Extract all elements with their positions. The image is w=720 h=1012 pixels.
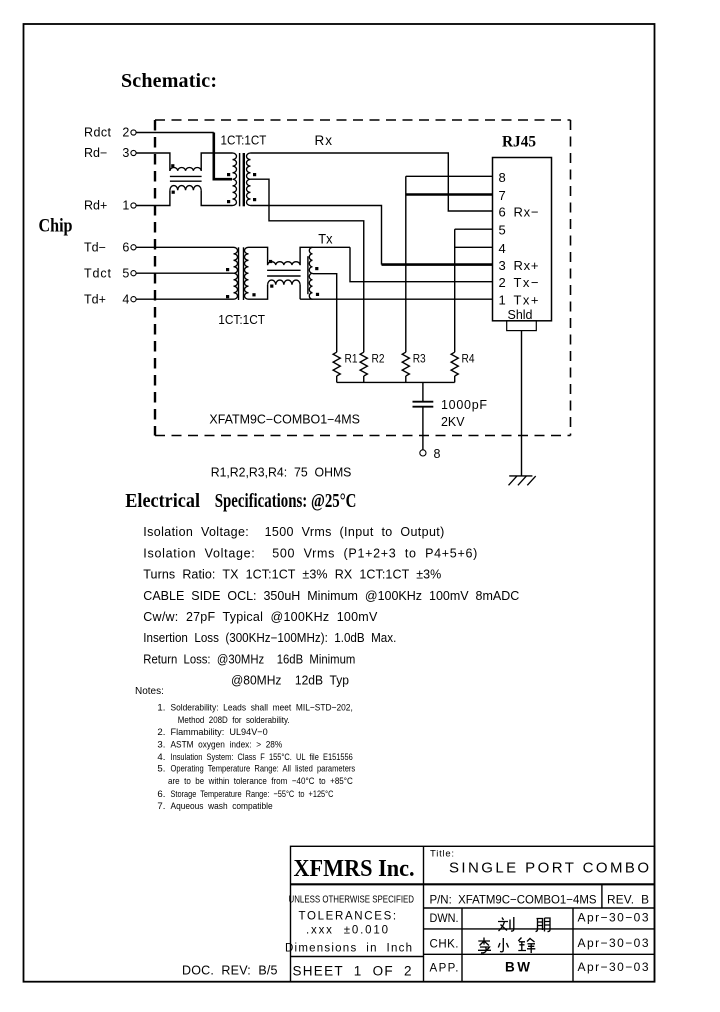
signature Liu Peng (DWN) <box>498 917 550 932</box>
svg-text:R2: R2 <box>372 354 385 366</box>
svg-text:CHK.: CHK. <box>430 939 459 951</box>
autotransformer L1 winding <box>309 247 312 299</box>
capacitor C1 top lead <box>422 382 424 401</box>
svg-text:Apr−30−03: Apr−30−03 <box>578 936 649 950</box>
wire Td+ pin4 to T2 primary bottom <box>136 298 233 300</box>
svg-text:P/N: XFATM9C−COMBO1−4MS: P/N: XFATM9C−COMBO1−4MS <box>430 893 597 907</box>
wire Tx top rail to RJ45 pin2 Tx- <box>350 247 493 281</box>
wire Rdct pin2 horizontal <box>136 132 214 134</box>
svg-text:2: 2 <box>122 126 129 140</box>
svg-text:7.: 7. <box>157 801 165 812</box>
svg-text:.xxx ±0.010: .xxx ±0.010 <box>306 925 388 937</box>
svg-text:R1: R1 <box>345 354 358 366</box>
node terminal circle 8 <box>420 450 426 456</box>
svg-text:1CT:1CT: 1CT:1CT <box>221 133 267 148</box>
svg-text:Apr−30−03: Apr−30−03 <box>578 911 649 925</box>
choke CM1 core lines <box>170 175 202 177</box>
wire RJ45 pin5 <box>455 228 493 230</box>
svg-text:Notes:: Notes: <box>135 686 164 697</box>
resistor R4 bottom lead <box>454 376 456 382</box>
transformer T1 core lines <box>239 153 241 206</box>
wire choke CM2 right to Tx top rail <box>300 247 350 265</box>
pin terminal circle 3 <box>131 150 136 155</box>
wire T1 secondary center tap to R2 <box>251 179 364 352</box>
wire Td- pin6 to T2 primary top <box>136 246 233 248</box>
svg-text:RJ45: RJ45 <box>502 134 536 151</box>
RJ45 connector body <box>493 158 552 321</box>
svg-text:Tdct: Tdct <box>84 266 112 280</box>
svg-text:Tx: Tx <box>318 232 332 247</box>
svg-text:Rx: Rx <box>315 133 333 148</box>
T1 polarity dots <box>227 173 230 176</box>
svg-text:Operating Temperature Range:: Operating Temperature Range: All listed … <box>171 764 356 775</box>
svg-text:Isolation Voltage: 500 Vr: Isolation Voltage: 500 Vrms (P1+2+3 to P… <box>143 546 477 560</box>
transformer T1 secondary winding <box>246 153 250 206</box>
autotransformer polarity dots <box>315 267 318 270</box>
wire net pins7+8 vertical to R3 <box>405 176 407 352</box>
wire Tdct pin5 to T2 center tap <box>136 272 233 274</box>
wire Tx bottom rail to RJ45 pin1 Tx+ <box>300 298 492 300</box>
svg-text:DWN.: DWN. <box>430 913 459 925</box>
svg-text:Schematic:: Schematic: <box>121 70 217 92</box>
svg-text:Chip: Chip <box>39 216 73 237</box>
capacitor C1 bottom lead <box>422 407 424 449</box>
choke CM2 bottom winding <box>268 280 301 285</box>
svg-text:7: 7 <box>499 188 506 203</box>
wire shield to ground <box>521 331 523 476</box>
svg-text:Insulation System: Class F: Insulation System: Class F 155°C. UL fil… <box>171 752 353 763</box>
resistor R3 bottom lead <box>405 376 407 382</box>
svg-text:XFATM9C−COMBO1−4MS: XFATM9C−COMBO1−4MS <box>209 413 360 427</box>
svg-text:3: 3 <box>122 146 129 160</box>
svg-text:BW: BW <box>505 960 530 975</box>
wire RJ45 pin8 <box>406 175 493 177</box>
transformer T2 (Tx) primary winding <box>234 247 238 299</box>
autotransformer L1 core line <box>307 256 309 294</box>
svg-text:Rd−: Rd− <box>84 146 107 160</box>
svg-text:1.: 1. <box>157 703 165 714</box>
resistor R1 bottom lead <box>336 376 338 382</box>
wire thick to RJ45 pin3 Rx+ <box>382 263 493 266</box>
svg-text:6: 6 <box>122 241 129 255</box>
svg-text:2: 2 <box>499 275 506 290</box>
ground symbol <box>509 476 536 485</box>
svg-text:Flammability: UL94V−0: Flammability: UL94V−0 <box>171 727 268 738</box>
transformer T1 (Rx) primary winding <box>233 153 237 206</box>
svg-text:2.: 2. <box>157 727 165 738</box>
wire Rdct thick vertical to T1 primary center tap <box>214 133 232 180</box>
svg-text:R1,R2,R3,R4: 75 OHMS: R1,R2,R3,R4: 75 OHMS <box>211 466 352 480</box>
svg-text:8: 8 <box>499 170 506 185</box>
transformer T2 secondary winding <box>244 247 248 299</box>
RJ45 shield tab <box>507 321 537 331</box>
wire choke CM2 right bottom <box>299 285 301 300</box>
wire Rd+ pin1 to choke CM1 <box>136 190 170 205</box>
svg-text:DOC. REV: B/5: DOC. REV: B/5 <box>182 964 278 978</box>
wire autotransformer tap to R1 <box>313 274 337 353</box>
svg-text:6: 6 <box>499 205 506 220</box>
svg-text:5: 5 <box>122 266 129 280</box>
capacitor C1 plates <box>413 402 434 407</box>
choke CM1 polarity dot top <box>171 164 174 167</box>
svg-text:Shld: Shld <box>508 307 533 322</box>
svg-text:Tx−: Tx− <box>514 275 539 290</box>
svg-text:Td+: Td+ <box>84 292 106 306</box>
wire choke CM1 to T1 primary top <box>201 153 232 171</box>
svg-text:Apr−30−03: Apr−30−03 <box>578 960 649 974</box>
resistor R2 <box>360 352 367 376</box>
choke CM1 bottom winding <box>170 186 201 191</box>
svg-text:@80MHz 12dB Typ: @80MHz 12dB Typ <box>231 674 349 688</box>
choke CM2 core lines <box>267 269 301 271</box>
wire T2 secondary top to choke CM2 <box>249 247 268 265</box>
svg-text:Return Loss: @30MHz 16dB: Return Loss: @30MHz 16dB Minimum <box>143 652 355 666</box>
svg-text:XFMRS Inc.: XFMRS Inc. <box>294 855 415 882</box>
wire thick RJ45 pin7 <box>406 193 493 196</box>
T2 polarity dots <box>226 268 229 271</box>
svg-text:4: 4 <box>122 292 129 306</box>
svg-text:4.: 4. <box>157 752 165 763</box>
svg-text:Rx+: Rx+ <box>514 258 539 273</box>
svg-text:8: 8 <box>434 447 441 461</box>
svg-text:6.: 6. <box>157 789 165 800</box>
svg-text:Cw/w: 27pF Typical @100KHz: Cw/w: 27pF Typical @100KHz 100mV <box>143 610 378 624</box>
svg-text:Rx−: Rx− <box>514 205 539 220</box>
svg-text:4: 4 <box>499 241 506 256</box>
common-mode choke CM1 (Rx) top winding <box>170 167 201 170</box>
svg-text:Solderability: Leads shall: Solderability: Leads shall meet MIL−STD−… <box>171 703 353 714</box>
svg-text:5.: 5. <box>157 764 165 775</box>
wire T2 secondary bottom to choke CM2 <box>249 285 268 300</box>
svg-text:Aqueous wash compatible: Aqueous wash compatible <box>171 801 273 812</box>
resistor R3 <box>402 352 409 376</box>
svg-text:Title:: Title: <box>430 849 454 860</box>
svg-text:Td−: Td− <box>84 241 106 255</box>
resistor R1 <box>333 352 340 376</box>
svg-text:Method 208D for solderabili: Method 208D for solderability. <box>178 715 290 726</box>
resistor R4 <box>451 352 458 376</box>
svg-text:1: 1 <box>122 199 129 213</box>
svg-text:Dimensions in Inch: Dimensions in Inch <box>285 943 412 955</box>
choke CM1 polarity dot bottom <box>172 191 175 194</box>
svg-text:3.: 3. <box>157 740 165 751</box>
svg-text:ASTM oxygen index: > 28%: ASTM oxygen index: > 28% <box>171 740 283 751</box>
wire R4 net vertical <box>454 229 456 352</box>
svg-text:CABLE SIDE OCL: 350uH Mini: CABLE SIDE OCL: 350uH Minimum @100KHz 10… <box>143 589 519 603</box>
pin terminal circle 4 <box>131 297 136 302</box>
svg-text:Storage Temperature Range:: Storage Temperature Range: −55°C to +125… <box>171 789 334 800</box>
wire choke CM1 to T1 primary bottom <box>201 190 232 205</box>
svg-text:TOLERANCES:: TOLERANCES: <box>299 911 397 923</box>
wire T1 secondary bottom <box>251 206 382 265</box>
wire T1 secondary top to RJ45 pin6 Rx- <box>251 153 493 211</box>
choke CM2 polarity dots <box>269 260 272 263</box>
svg-text:UNLESS OTHERWISE SPECIFIED: UNLESS OTHERWISE SPECIFIED <box>289 895 415 906</box>
svg-text:1CT:1CT: 1CT:1CT <box>218 312 265 327</box>
svg-text:SHEET 1 OF 2: SHEET 1 OF 2 <box>293 964 412 979</box>
wire Rd- pin3 to choke CM1 <box>136 153 170 171</box>
pin terminal circle 2 <box>131 130 136 135</box>
svg-text:Specifications: @25°C: Specifications: @25°C <box>215 491 357 512</box>
svg-text:2KV: 2KV <box>441 415 465 429</box>
pin terminal circle 5 <box>131 271 136 276</box>
svg-text:are to be within tolerance: are to be within tolerance from −40°C to… <box>168 776 353 787</box>
svg-text:Tx+: Tx+ <box>514 293 539 308</box>
svg-text:Turns Ratio: TX 1CT:1CT ±3: Turns Ratio: TX 1CT:1CT ±3% RX 1CT:1CT ±… <box>143 568 441 582</box>
svg-text:Insertion Loss (300KHz−100MH: Insertion Loss (300KHz−100MHz): 1.0dB Ma… <box>143 631 396 645</box>
choke CM2 (Tx) top winding <box>268 262 301 265</box>
svg-text:Electrical: Electrical <box>125 491 200 512</box>
transformer T2 core lines <box>238 247 240 300</box>
resistor R2 bottom lead <box>363 376 365 382</box>
title block table <box>291 846 655 981</box>
svg-text:3: 3 <box>499 258 506 273</box>
wire resistor common rail <box>337 381 455 383</box>
svg-text:Isolation Voltage: 1500 V: Isolation Voltage: 1500 Vrms (Input to O… <box>143 525 444 539</box>
svg-text:1000pF: 1000pF <box>441 398 487 412</box>
pin terminal circle 1 <box>131 203 136 208</box>
pin terminal circle 6 <box>131 245 136 250</box>
dashed schematic boundary box <box>155 120 571 436</box>
svg-text:Rd+: Rd+ <box>84 199 107 213</box>
signature Li Xiaofeng (CHK) <box>478 938 535 954</box>
wire RJ45 pin4 <box>455 246 493 248</box>
svg-text:R3: R3 <box>413 354 426 366</box>
svg-text:Rdct: Rdct <box>84 126 112 140</box>
svg-text:1: 1 <box>499 293 506 308</box>
svg-text:REV. B: REV. B <box>607 893 649 907</box>
svg-text:R4: R4 <box>462 354 476 366</box>
svg-text:5: 5 <box>499 223 506 238</box>
